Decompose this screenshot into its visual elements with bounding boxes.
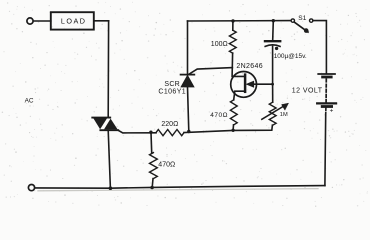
transistor emitter arrowhead [246, 81, 253, 87]
svg-text:220Ω: 220Ω [161, 121, 178, 128]
wire emitter node to pot [272, 84, 274, 102]
svg-text:LOAD: LOAD [61, 17, 87, 26]
SCR C106Y triangle [181, 75, 194, 87]
svg-text:100Ω: 100Ω [211, 41, 228, 48]
wire terminal to LOAD [33, 20, 50, 22]
transistor base1 lead [234, 91, 245, 100]
bottom rail [35, 186, 325, 189]
battery B1 cell1 long plate [318, 73, 335, 75]
node junction SCR-net [187, 130, 190, 133]
capacitor lead down [272, 46, 274, 84]
node junction 470a [149, 131, 152, 134]
potentiometer arrow [262, 106, 285, 120]
wire switch to corner [313, 21, 327, 74]
capacitor C1 lead top [272, 21, 275, 40]
battery cell2 short plate [322, 105, 331, 108]
switch S1 left contact [291, 19, 294, 22]
svg-text:100µ@15v.: 100µ@15v. [274, 53, 307, 60]
svg-text:S1: S1 [298, 15, 306, 22]
SCR anode wire lower [188, 87, 189, 132]
svg-text:AC: AC [25, 97, 34, 104]
capacitor bottom plate [265, 45, 280, 47]
transistor bar [244, 75, 247, 92]
battery dashed lower [325, 108, 327, 115]
switch S1 right contact [310, 19, 313, 22]
svg-text:12 VOLT: 12 VOLT [292, 88, 323, 95]
resistor 470ohm B [230, 100, 237, 125]
wire left vertical lower [108, 130, 110, 188]
node junction rail-left-vert [109, 186, 113, 190]
SCR gate wire [189, 68, 232, 75]
triac bottom bar [100, 129, 118, 131]
svg-text:1M: 1M [280, 112, 288, 118]
wire battery to bottom rail [324, 115, 327, 186]
svg-text:+: + [330, 108, 334, 115]
load box [51, 12, 94, 29]
node junction emitter [271, 83, 274, 86]
wire LOAD to corner [94, 20, 109, 22]
svg-text:SCR: SCR [164, 81, 180, 88]
resistor 100ohm [232, 21, 234, 30]
svg-text:470Ω: 470Ω [158, 161, 175, 168]
terminal top-left [27, 18, 33, 24]
capacitor polarity blob [275, 47, 278, 50]
battery dashed middle [325, 79, 327, 101]
svg-text:470Ω: 470Ω [210, 112, 228, 119]
node junction cap-top [272, 19, 275, 22]
terminal bottom-left [28, 185, 34, 191]
svg-text:C106Y1: C106Y1 [158, 89, 186, 96]
transistor circle [231, 72, 257, 98]
node junction rail-470a [150, 186, 154, 190]
battery cell1 short plate [323, 76, 332, 79]
wire 470a top lead [150, 133, 153, 153]
SCR cathode bar [181, 74, 195, 76]
triac left triangle [93, 118, 107, 129]
top rail [188, 20, 292, 22]
triac TR1 top bar [92, 117, 110, 119]
wire left vertical upper [107, 21, 109, 118]
svg-text:2N2646: 2N2646 [236, 63, 263, 70]
triac right triangle [104, 119, 118, 130]
capacitor top plate [265, 40, 280, 42]
wire gate net to pot [184, 125, 272, 132]
resistor 470ohm A [150, 153, 158, 179]
battery cell2 long plate [317, 102, 336, 104]
wire 470a bottom lead [151, 179, 154, 188]
transistor emitter wire [253, 83, 273, 85]
rail shadow [38, 189, 318, 191]
transistor Q1 2N2646 base2 lead [232, 68, 244, 77]
node junction 470b-net [231, 129, 234, 132]
node junction 100ohm-top [231, 19, 234, 22]
SCR cathode wire up [187, 21, 189, 75]
potentiometer 1M zigzag [269, 102, 276, 125]
triac gate wire [118, 130, 156, 133]
resistor 220ohm [156, 130, 184, 136]
switch blade [294, 22, 308, 32]
